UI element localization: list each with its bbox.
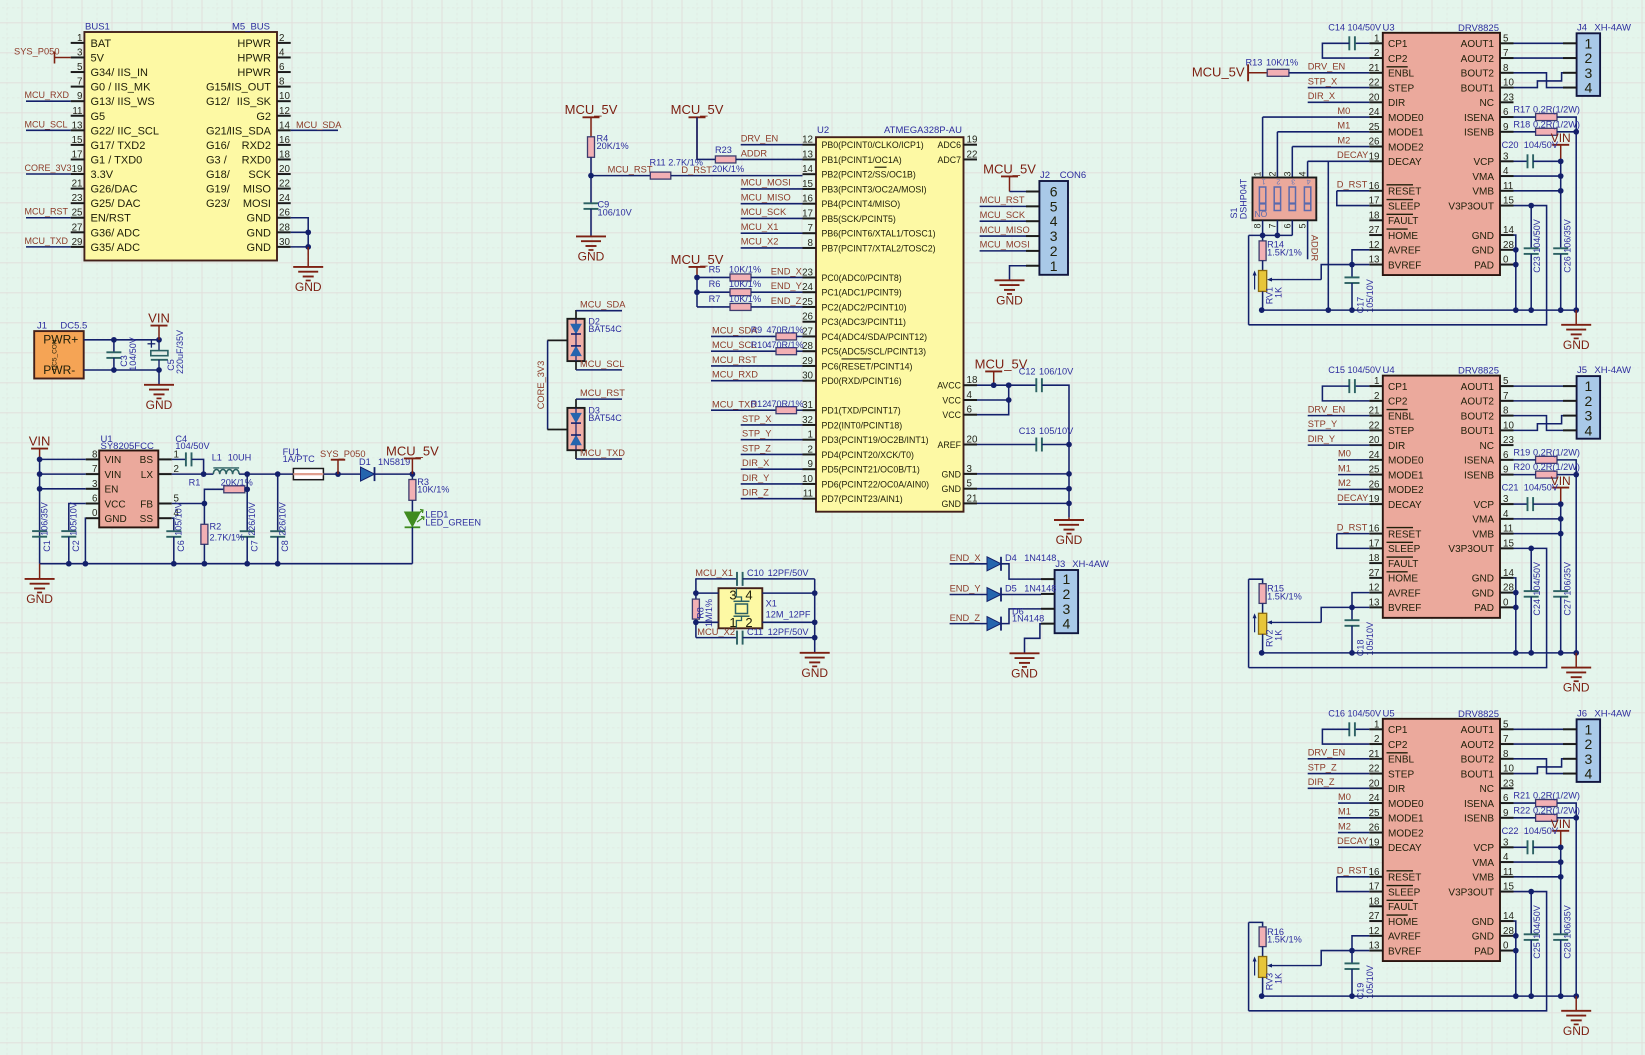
potentiometer RV1 1K [1253, 271, 1322, 305]
junction PAD U3 [1513, 262, 1519, 268]
svg-text:M5_BUS: M5_BUS [232, 22, 270, 33]
svg-text:C22: C22 [1502, 826, 1519, 836]
svg-text:DECAY: DECAY [1337, 150, 1368, 160]
svg-text:L1: L1 [212, 452, 222, 462]
wire D_RST U3 [1337, 190, 1370, 192]
svg-text:8: 8 [1503, 63, 1509, 74]
svg-text:8: 8 [279, 77, 285, 88]
svg-text:GND: GND [1472, 917, 1494, 928]
wire MCU_RST to J2 [980, 205, 1026, 207]
wire ISENB U5 [1514, 817, 1536, 819]
wire AOUT2 to J4 pin2 [1514, 57, 1564, 59]
wire STP_X to STEP [1308, 87, 1370, 89]
svg-text:DECAY: DECAY [1388, 500, 1422, 511]
svg-text:4: 4 [967, 390, 973, 401]
svg-text:G17/ TXD2: G17/ TXD2 [91, 140, 146, 152]
junction rail U5 x1352 [1349, 993, 1355, 999]
wire R12 to U2 [797, 409, 803, 411]
net label D_RST U3 [1337, 180, 1368, 190]
svg-text:SLEEP: SLEEP [1388, 887, 1421, 898]
connector BUS1 M5_BUS [71, 22, 291, 261]
net label MCU_X1 at X1 [695, 568, 733, 578]
wire C12 to gnd line [1042, 385, 1069, 444]
net port SYS_P050 at FU1 [320, 449, 366, 474]
wire C28 to rail [1560, 940, 1562, 996]
svg-text:MODE2: MODE2 [1388, 485, 1424, 496]
wire BOUT2 to J4 pin4 [1514, 73, 1564, 88]
svg-text:0.2R(1/2W): 0.2R(1/2W) [1533, 119, 1580, 129]
capacitor C26 [1553, 248, 1568, 254]
svg-text:AVCC: AVCC [937, 381, 961, 391]
svg-text:CP1: CP1 [1388, 725, 1408, 736]
svg-text:ADC7: ADC7 [938, 155, 962, 165]
wire VCP cap to VIN U4 [1533, 503, 1561, 505]
svg-text:1A/PTC: 1A/PTC [283, 454, 316, 464]
net label DIR_Y [1308, 434, 1335, 444]
power MCU_5V at J2 [983, 161, 1036, 191]
svg-text:GND: GND [1056, 533, 1083, 547]
svg-text:CP2: CP2 [1388, 397, 1408, 408]
wire R17 to sense rail [1557, 117, 1576, 132]
wire STP_Y to STEP [1308, 429, 1370, 431]
svg-text:DRV_EN: DRV_EN [741, 133, 779, 143]
svg-text:R5: R5 [709, 264, 721, 274]
label R14 [1267, 240, 1302, 258]
junction VIN pin8 [37, 457, 43, 463]
diode D6 1N4148 [987, 617, 1001, 631]
diode D4 1N4148 [987, 557, 1001, 571]
svg-text:17: 17 [72, 149, 83, 160]
svg-text:10K/1%: 10K/1% [1266, 58, 1298, 68]
potentiometer RV3 1K [1253, 957, 1322, 991]
svg-text:G26/DAC: G26/DAC [91, 184, 138, 196]
svg-text:6: 6 [967, 405, 973, 416]
svg-text:15: 15 [72, 135, 83, 146]
net label STP_X [1308, 76, 1337, 86]
junction GND3 [1066, 471, 1072, 477]
junction sense rail U3 [1573, 129, 1579, 135]
svg-text:GND: GND [247, 213, 272, 225]
svg-text:GND: GND [146, 398, 173, 412]
wire C8 to rail [277, 537, 279, 564]
svg-text:CORE_3V3: CORE_3V3 [25, 163, 72, 173]
wire C24 to rail [1530, 597, 1532, 653]
driver U4 DRV8825 [1369, 365, 1515, 618]
net label M2 U5 [1338, 821, 1351, 831]
svg-text:HOME: HOME [1388, 917, 1418, 928]
svg-text:FAULT: FAULT [1388, 216, 1418, 227]
wire C19 to rail [1351, 969, 1353, 996]
label C3 value [119, 337, 138, 371]
svg-text:DRV8825: DRV8825 [1458, 366, 1499, 377]
junction S1 pin8 [1260, 233, 1266, 239]
wire sense rail down U4 [1575, 475, 1577, 653]
capacitor C2 [61, 531, 76, 537]
svg-text:8: 8 [92, 449, 98, 460]
capacitor C14 [1349, 36, 1355, 50]
crystal X1 12M_12PF [719, 588, 811, 631]
svg-text:R9: R9 [751, 325, 763, 335]
wire M1 down to S1 [1276, 132, 1278, 178]
svg-text:X1: X1 [766, 598, 777, 608]
wire ISENA U5 [1514, 802, 1536, 804]
wire U3 cap to CP2 [1322, 43, 1369, 58]
svg-text:8: 8 [808, 238, 814, 249]
svg-text:C21: C21 [1502, 483, 1519, 493]
wire U4 cap to CP2 [1322, 386, 1369, 401]
svg-text:GND: GND [801, 666, 828, 680]
svg-text:3: 3 [1585, 65, 1593, 81]
junction X1 pin3 [693, 590, 699, 596]
svg-text:M2: M2 [1337, 135, 1350, 145]
svg-text:MCU_RST: MCU_RST [980, 195, 1025, 205]
svg-text:GND: GND [1472, 932, 1494, 943]
svg-text:VIN: VIN [148, 311, 170, 326]
svg-text:DRV8825: DRV8825 [1458, 709, 1499, 720]
svg-text:STEP: STEP [1388, 83, 1414, 94]
svg-text:22: 22 [967, 149, 978, 160]
net label MCU_RST [712, 355, 757, 365]
svg-text:ATMEGA328P-AU: ATMEGA328P-AU [884, 125, 962, 136]
svg-text:BOUT2: BOUT2 [1461, 69, 1495, 80]
svg-text:ADDR: ADDR [1310, 235, 1320, 262]
svg-text:4: 4 [1307, 178, 1311, 187]
wire R21 to sense rail [1557, 803, 1576, 818]
capacitor C22 [1528, 840, 1534, 854]
svg-text:105/10V: 105/10V [174, 502, 184, 536]
svg-text:9: 9 [1503, 808, 1508, 819]
svg-text:6: 6 [1503, 450, 1509, 461]
wire M1 to MODE1 U5 [1338, 817, 1369, 819]
svg-text:3: 3 [1585, 408, 1593, 424]
power MCU_5V at D1 [386, 443, 439, 474]
svg-text:0.2R(1/2W): 0.2R(1/2W) [1533, 105, 1580, 115]
svg-text:3: 3 [1503, 151, 1509, 162]
wire C3 vertical top [113, 340, 115, 353]
svg-text:26: 26 [279, 208, 290, 219]
wire R2 to rail [203, 544, 205, 563]
svg-text:RESET: RESET [1388, 529, 1421, 540]
capacitor C21 [1528, 497, 1534, 511]
power VIN U4 [1551, 474, 1571, 504]
wire AVCC row [977, 384, 1036, 386]
junction rail x68 [66, 561, 72, 567]
svg-text:21: 21 [1369, 406, 1380, 417]
wire R1 to LX node [245, 488, 247, 490]
svg-text:29: 29 [802, 356, 813, 367]
wire J3 pin4 to ground [1025, 624, 1042, 654]
net label STP_X [742, 414, 771, 424]
wire VIN to U1 pin3 EN [40, 488, 86, 490]
wire AVREF tie U3 [1352, 250, 1369, 265]
svg-text:9: 9 [1503, 465, 1508, 476]
svg-text:4: 4 [1503, 852, 1509, 863]
net label MCU_X2 [741, 237, 779, 247]
inductor L1 10UH [212, 452, 252, 474]
svg-text:PB3(PCINT3/OC2A/MOSI): PB3(PCINT3/OC2A/MOSI) [822, 184, 927, 194]
capacitor C15 [1349, 379, 1355, 393]
label R10 [751, 340, 804, 350]
svg-text:R13: R13 [1246, 58, 1263, 68]
svg-text:5: 5 [1298, 223, 1308, 228]
svg-text:J3: J3 [1055, 559, 1065, 570]
svg-text:PD3(PCINT19/OC2B/INT1): PD3(PCINT19/OC2B/INT1) [822, 435, 929, 445]
wire R4 to MCU_RST node [590, 157, 592, 175]
label D4 [1005, 553, 1056, 563]
svg-text:C15: C15 [1328, 365, 1345, 375]
svg-text:4: 4 [1063, 616, 1071, 632]
svg-text:18: 18 [1369, 210, 1380, 221]
svg-text:20: 20 [1369, 435, 1380, 446]
svg-text:26: 26 [802, 312, 813, 323]
junction GND21 [1066, 501, 1072, 507]
svg-text:RESET: RESET [1388, 187, 1421, 198]
svg-text:EN/RST: EN/RST [91, 213, 132, 225]
svg-text:AOUT1: AOUT1 [1461, 382, 1495, 393]
svg-text:470R/1%: 470R/1% [767, 399, 804, 409]
wire PAD U5 [1514, 950, 1516, 952]
net label D_RST U4 [1337, 522, 1368, 532]
svg-text:10: 10 [802, 474, 813, 485]
svg-text:16: 16 [1369, 867, 1380, 878]
svg-text:ISENB: ISENB [1464, 128, 1494, 139]
label R11 [650, 158, 703, 168]
svg-text:DECAY: DECAY [1337, 493, 1368, 503]
net label DIR_Y [742, 473, 769, 483]
svg-text:R10: R10 [751, 340, 768, 350]
svg-text:C24: C24 [1532, 599, 1542, 616]
svg-text:24: 24 [1369, 450, 1380, 461]
net label MCU_RXD [25, 90, 70, 100]
wire D4 to J3 pin1 [1001, 564, 1041, 579]
svg-text:PB7(PCINT7/XTAL2/TOSC2): PB7(PCINT7/XTAL2/TOSC2) [822, 243, 936, 253]
svg-text:SS: SS [140, 514, 154, 525]
junction C3 top [111, 337, 117, 343]
svg-text:MCU_RST: MCU_RST [25, 207, 69, 217]
svg-text:R21: R21 [1513, 791, 1530, 801]
power MCU_5V at R23 [671, 102, 724, 159]
svg-text:1: 1 [1585, 378, 1593, 394]
net label MCU_MISO [741, 192, 791, 202]
label R13 [1246, 58, 1299, 68]
svg-text:PD2(INT0/PCINT18): PD2(INT0/PCINT18) [822, 420, 903, 430]
capacitor C7 [240, 531, 255, 537]
svg-text:MCU_5V: MCU_5V [1192, 64, 1245, 79]
svg-text:MCU_SCL: MCU_SCL [580, 359, 624, 369]
diode D5 1N4148 [987, 588, 1001, 602]
wire D1 to MCU_5V node [375, 473, 413, 475]
svg-text:27: 27 [1369, 225, 1380, 236]
svg-text:G15/: G15/ [206, 82, 231, 94]
svg-text:C27: C27 [1563, 599, 1573, 616]
label C21 [1502, 483, 1559, 493]
svg-text:19: 19 [1369, 837, 1380, 848]
wire VIN to U1 pin7 [40, 473, 86, 475]
svg-text:17: 17 [1369, 196, 1380, 207]
svg-text:ISENA: ISENA [1464, 113, 1494, 124]
wire C26 to rail [1560, 254, 1562, 310]
label C5 value [166, 330, 185, 374]
svg-text:22: 22 [279, 179, 290, 190]
svg-text:14: 14 [1503, 225, 1514, 236]
net label DRV_EN U5 [1308, 748, 1346, 758]
wire AOUT1 to J6 pin1 [1514, 728, 1564, 730]
svg-text:SY8205FCC: SY8205FCC [101, 441, 154, 452]
wire AOUT1 to J5 pin1 [1514, 385, 1564, 387]
svg-text:BOUT1: BOUT1 [1461, 426, 1495, 437]
svg-text:MISO: MISO [243, 184, 272, 196]
net label M1 U5 [1338, 807, 1351, 817]
svg-text:AOUT2: AOUT2 [1461, 54, 1495, 65]
svg-text:DIR_Z: DIR_Z [1308, 777, 1335, 787]
svg-text:1: 1 [1374, 33, 1379, 44]
net label ADDR vertical [1310, 235, 1320, 262]
svg-text:GND: GND [1472, 574, 1494, 585]
svg-text:6: 6 [1282, 223, 1292, 228]
label R22 [1513, 805, 1580, 815]
svg-text:BOUT1: BOUT1 [1461, 83, 1495, 94]
net label END_Y [771, 281, 802, 291]
svg-text:24: 24 [802, 282, 813, 293]
wire AREF row [977, 444, 1036, 446]
svg-text:C12: C12 [1019, 366, 1036, 376]
svg-text:PB6(PCINT6/XTAL1/TOSC1): PB6(PCINT6/XTAL1/TOSC1) [822, 229, 936, 239]
svg-text:G19/: G19/ [206, 184, 231, 196]
svg-text:3: 3 [729, 588, 736, 603]
svg-text:104/50V: 104/50V [1524, 140, 1559, 150]
ground below X1 [800, 653, 830, 680]
svg-text:4: 4 [1585, 80, 1593, 96]
wire U1 GND pin to rail [84, 518, 86, 564]
svg-text:PB0(PCINT0/CLKO/ICP1): PB0(PCINT0/CLKO/ICP1) [822, 140, 924, 150]
svg-text:23: 23 [1503, 778, 1514, 789]
wire X1 pin3 stub [696, 592, 719, 594]
svg-text:6: 6 [279, 62, 285, 73]
svg-text:28: 28 [802, 341, 813, 352]
junction VMA U5 [1558, 859, 1564, 865]
svg-text:25: 25 [1369, 465, 1380, 476]
svg-text:VCC: VCC [942, 410, 961, 420]
wire R7 to U2 [751, 306, 803, 308]
svg-text:XH-4AW: XH-4AW [1594, 22, 1631, 33]
junction rail x247 [244, 561, 250, 567]
label R19 [1513, 447, 1580, 457]
svg-text:10: 10 [1503, 420, 1514, 431]
svg-text:VMA: VMA [1472, 515, 1494, 526]
svg-text:GND: GND [578, 249, 605, 263]
svg-text:6: 6 [1050, 184, 1058, 200]
junction rail U3 x1352 [1349, 307, 1355, 313]
svg-text:8: 8 [1503, 749, 1509, 760]
svg-text:2: 2 [1585, 393, 1593, 409]
svg-text:MCU_MOSI: MCU_MOSI [741, 178, 791, 188]
svg-text:AOUT1: AOUT1 [1461, 39, 1495, 50]
svg-text:FAULT: FAULT [1388, 559, 1418, 570]
svg-text:1: 1 [1585, 35, 1593, 51]
junction rail x173 [171, 561, 177, 567]
wire R18 to sense rail [1557, 131, 1576, 133]
net label DECAY U3 [1337, 150, 1368, 160]
regulator U1 SY8205FCC [86, 434, 180, 528]
resistor R17 0.2R [1536, 114, 1557, 121]
wire END_Y to diode [950, 594, 987, 596]
wire ground rail U4 [1262, 652, 1577, 654]
svg-text:MODE0: MODE0 [1388, 113, 1424, 124]
junction rail U4 x1352 [1349, 650, 1355, 656]
svg-text:PAD: PAD [1474, 603, 1494, 614]
junction rail U3 x1560 [1558, 307, 1564, 313]
svg-text:GND: GND [1563, 1024, 1590, 1038]
svg-text:DECAY: DECAY [1337, 836, 1368, 846]
svg-text:3: 3 [92, 479, 98, 490]
resistor R4 20K/1% [588, 137, 595, 158]
svg-text:PWR+: PWR+ [43, 333, 78, 347]
svg-text:14: 14 [802, 164, 813, 175]
svg-text:ADC6: ADC6 [938, 140, 962, 150]
svg-text:STP_Z: STP_Z [742, 443, 771, 453]
net label D_RST at U2 [681, 165, 712, 175]
wire R23 to U2 pin13 ADDR [736, 158, 803, 160]
svg-text:ENBL: ENBL [1388, 411, 1415, 422]
svg-text:2: 2 [1063, 586, 1071, 602]
svg-text:IIS_SDA: IIS_SDA [229, 125, 272, 137]
svg-text:12: 12 [1369, 583, 1380, 594]
svg-text:19: 19 [1369, 494, 1380, 505]
svg-text:3: 3 [1063, 601, 1071, 617]
svg-text:CP2: CP2 [1388, 54, 1408, 65]
svg-text:5: 5 [1050, 198, 1058, 214]
svg-text:BOUT2: BOUT2 [1461, 755, 1495, 766]
svg-text:7: 7 [77, 77, 82, 88]
wire D3 bottom net [576, 458, 622, 460]
label R8 [696, 599, 715, 627]
capacitor C13 105/10V [1036, 438, 1042, 452]
svg-text:C2: C2 [71, 540, 81, 552]
label C7 [247, 502, 260, 552]
svg-text:DC5.5: DC5.5 [60, 320, 87, 331]
label C20 [1502, 140, 1559, 150]
svg-text:IIS_OUT: IIS_OUT [228, 82, 271, 94]
junction VMB U4 [1558, 531, 1564, 537]
svg-text:20: 20 [1369, 778, 1380, 789]
label C14 [1328, 22, 1381, 32]
net label END_Z [950, 613, 981, 623]
svg-text:GND: GND [26, 592, 53, 606]
svg-text:AVREF: AVREF [1388, 246, 1421, 257]
svg-text:G12/: G12/ [206, 96, 231, 108]
svg-text:C23: C23 [1532, 256, 1542, 273]
junction rail U3 x1515 [1513, 307, 1519, 313]
svg-text:220uF/35V: 220uF/35V [175, 330, 185, 374]
svg-text:MCU_RXD: MCU_RXD [25, 90, 70, 100]
wire GND pins U3 [1514, 235, 1516, 310]
wire V3P3OUT U5 [1249, 892, 1547, 1011]
svg-text:104/50V: 104/50V [1532, 562, 1542, 596]
svg-text:CON6: CON6 [1060, 170, 1086, 181]
svg-text:105/10V: 105/10V [1365, 622, 1375, 656]
svg-text:1: 1 [1374, 719, 1379, 730]
wire net DIR_Y to U2 [741, 483, 803, 485]
wire D6 to J3 pin3 [1001, 609, 1041, 624]
svg-text:104/50V: 104/50V [1348, 708, 1382, 718]
junction rail U4 x1560 [1558, 650, 1564, 656]
svg-text:PC4(ADC4/SDA/PCINT12): PC4(ADC4/SDA/PCINT12) [822, 332, 928, 342]
svg-text:MCU_TXD: MCU_TXD [25, 236, 69, 246]
wire C10 to right rail [743, 578, 815, 580]
net label DIR_X [742, 458, 769, 468]
junction VCC4 [1006, 397, 1012, 403]
wire U2 GND21 row [977, 502, 1069, 504]
